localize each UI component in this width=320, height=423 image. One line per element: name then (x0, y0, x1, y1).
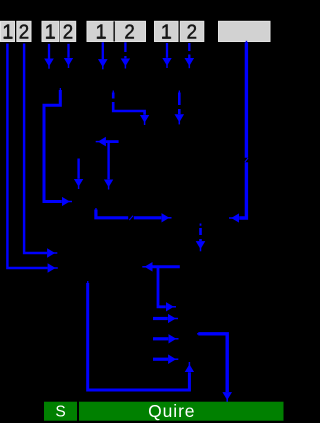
sheet box B3 pages 1|2 (87, 21, 146, 43)
arrow down from B3 right half (broken shaft) (124, 42, 126, 58)
wire from B5: long drop then arrow left (with notch) (239, 41, 248, 218)
arrow down from B4a (166, 43, 168, 58)
sheet box B2b page 2 (60, 21, 76, 43)
long U wire: down, across bottom, arrow up (87, 281, 189, 390)
divider of box B3 (113, 21, 115, 41)
svg-text:1: 1 (45, 22, 56, 44)
sheet box B1a page 1 (1, 21, 15, 43)
arrow down from B4b (broken shaft) (188, 43, 190, 58)
fold path from B2 gap: down, left, down, arrow right (44, 88, 62, 202)
sheet box B1b page 2 (17, 21, 31, 43)
wire from B1b page2 down then right into stack (24, 44, 47, 254)
arrow right into stack (3) (153, 358, 168, 361)
arrow down hanging from left-fold arrow (107, 143, 109, 180)
sewing box S (44, 402, 77, 421)
collate wire: stub down then horizontal arrow right (with notch) (95, 208, 161, 220)
svg-text:2: 2 (124, 22, 134, 44)
sheet box B4b page 2 (180, 21, 204, 43)
wire hanging from stage4 fold arrow: down then arrow right (158, 267, 166, 307)
svg-text:1: 1 (2, 22, 13, 44)
arrow down from B3 left half (102, 42, 104, 59)
svg-text:2: 2 (187, 22, 197, 44)
arrow down at merge point x200 (broken shaft) (200, 224, 202, 242)
svg-text:S: S (55, 404, 65, 421)
fold arrow pointing left (stage 4) (153, 265, 180, 268)
arrow down from B2a (48, 44, 50, 59)
svg-text:2: 2 (63, 22, 73, 44)
svg-text:1: 1 (95, 22, 106, 44)
arrow down from B2b (67, 44, 69, 58)
arrow down at x78 (77, 159, 79, 179)
fold path from B4 gap: straight arrow down (broken shaft) (179, 91, 180, 115)
quire bar (79, 401, 284, 421)
wire from B1a page1 down then right into stack (7, 44, 47, 269)
wire to quire: right then down arrow onto quire (197, 333, 227, 392)
sheet box B5 blank (219, 21, 271, 41)
svg-text:1: 1 (161, 22, 172, 44)
fold path from B3 divider: down, right, arrow down (113, 91, 145, 115)
fold arrow pointing left (stage 3) (106, 140, 119, 143)
svg-text:2: 2 (19, 22, 29, 44)
sheet box B4a page 1 (155, 21, 179, 43)
svg-text:Quire: Quire (148, 401, 195, 421)
sheet box B2a page 1 (42, 21, 59, 43)
arrow right into stack (1) (153, 317, 168, 320)
arrow right into stack (2) (153, 337, 168, 340)
